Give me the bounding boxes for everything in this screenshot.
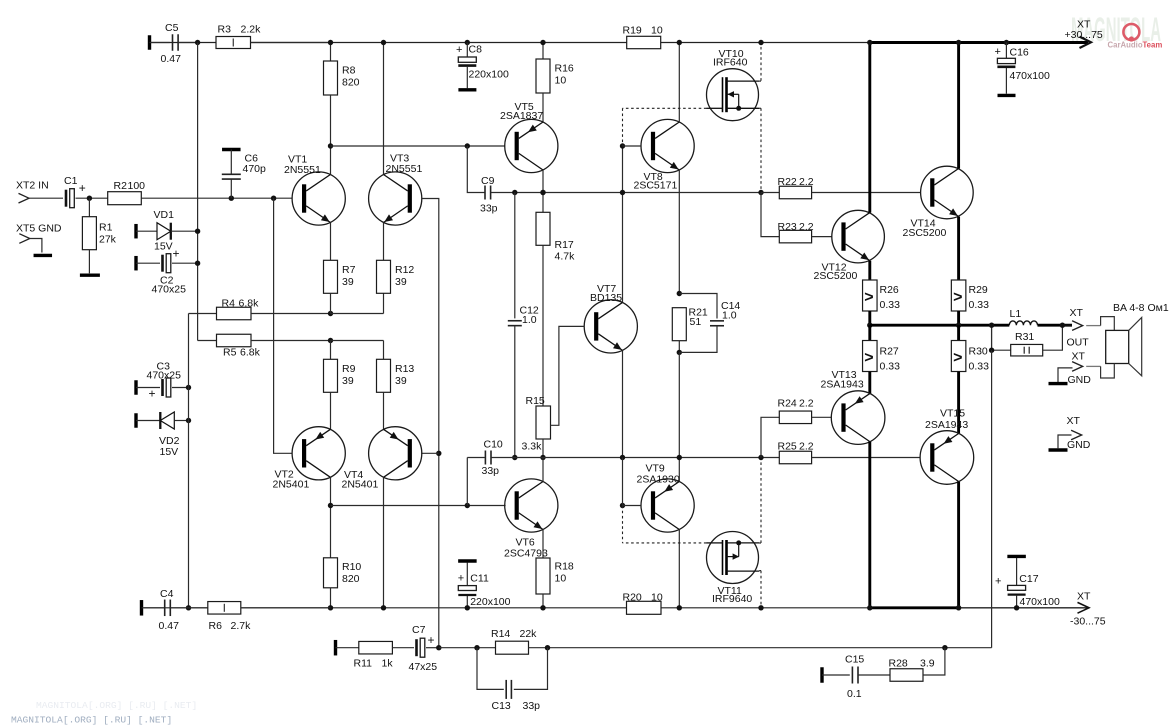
svg-text:2.2: 2.2 — [799, 221, 814, 233]
capacitor C15 0.1 — [820, 667, 823, 683]
svg-text:C8: C8 — [469, 44, 483, 56]
svg-text:0.47: 0.47 — [161, 53, 182, 65]
svg-text:>: > — [953, 289, 962, 306]
svg-text:L1: L1 — [1010, 308, 1022, 320]
wire VT14 emitter to R29 — [957, 217, 960, 280]
svg-text:MAGNITOLA[.ORG] [.RU] [.NET]: MAGNITOLA[.ORG] [.RU] [.NET] — [11, 715, 172, 726]
svg-text:R12: R12 — [395, 264, 414, 276]
svg-text:R16: R16 — [555, 63, 574, 75]
resistor R9 39 — [324, 359, 338, 392]
svg-text:2SC5200: 2SC5200 — [814, 270, 858, 282]
wire C12 riser — [514, 193, 516, 319]
svg-text:C10: C10 — [484, 439, 503, 451]
capacitor C9 33p — [467, 146, 484, 193]
resistor R4 6.8k — [189, 313, 217, 315]
wire R6 to rail — [241, 607, 331, 609]
svg-text:22k: 22k — [520, 628, 538, 640]
svg-text:220x100: 220x100 — [469, 69, 509, 81]
svg-text:0.33: 0.33 — [969, 361, 990, 373]
svg-text:C4: C4 — [160, 588, 174, 600]
svg-text:R3: R3 — [218, 24, 232, 36]
XT +30...75 supply arrow — [1080, 37, 1092, 48]
wire VT7 emitter to bias rail — [622, 350, 624, 457]
resistor R7 39 — [324, 260, 338, 293]
wire R9 to VT2 emitter — [330, 392, 332, 429]
node feedback tap — [436, 645, 441, 650]
svg-text:820: 820 — [342, 573, 360, 585]
connector XT OUT — [1062, 324, 1072, 326]
wire VT10 source dashed down — [760, 108, 762, 192]
wire VT8 collector to rail — [678, 43, 680, 123]
svg-text:2N5401: 2N5401 — [342, 478, 379, 490]
wire R5 node to R9 R13 tops — [331, 340, 384, 342]
wire R16 to VT5 emitter — [542, 93, 544, 122]
svg-text:R17: R17 — [555, 239, 574, 251]
wire VT14 collector thick to rail — [957, 43, 960, 169]
wire VT12 emitter to R26 — [868, 261, 871, 280]
resistor R31 — [991, 325, 993, 350]
svg-text:51: 51 — [690, 316, 702, 328]
resistor R21 51 — [672, 308, 686, 341]
svg-text:47x25: 47x25 — [409, 661, 438, 673]
svg-text:R29: R29 — [969, 284, 988, 296]
resistor R5 6.8k — [198, 340, 217, 342]
resistor R12 39 — [377, 260, 391, 293]
capacitor C5 0.47 — [148, 35, 151, 50]
svg-text:470x25: 470x25 — [152, 284, 187, 296]
wire VT3 base riser x438 — [421, 199, 439, 648]
svg-text:15V: 15V — [154, 241, 173, 253]
wire R12 bottom — [383, 293, 385, 313]
svg-text:470x100: 470x100 — [1010, 70, 1050, 82]
svg-text:R8: R8 — [342, 65, 356, 77]
svg-text:27k: 27k — [99, 234, 117, 246]
svg-text:2SC5171: 2SC5171 — [634, 180, 678, 192]
wire output to feedback riser — [991, 350, 993, 648]
svg-text:>: > — [864, 350, 873, 367]
svg-text:R20: R20 — [623, 592, 642, 604]
wire R23 to VT12 base — [812, 236, 833, 238]
svg-text:R25: R25 — [778, 440, 797, 452]
svg-text:R28: R28 — [889, 658, 908, 670]
svg-text:6.8k: 6.8k — [240, 347, 261, 359]
svg-text:2.7k: 2.7k — [231, 620, 252, 632]
resistor R26 0.33 — [863, 280, 878, 311]
capacitor C16 470x100 — [1004, 40, 1009, 45]
wire feedback to R14 — [439, 647, 496, 649]
wire R10 to bottom rail — [330, 588, 332, 608]
svg-text:R1: R1 — [99, 222, 113, 234]
svg-text:R24: R24 — [778, 397, 797, 409]
svg-text:C7: C7 — [412, 624, 426, 636]
capacitor C4 0.47 — [140, 600, 143, 616]
svg-text:2.2: 2.2 — [799, 440, 814, 452]
svg-text:2N5551: 2N5551 — [284, 164, 321, 176]
wire VT13 collector thick to bottom rail — [868, 442, 871, 608]
svg-text:3.3k: 3.3k — [522, 441, 543, 453]
svg-text:+: + — [173, 247, 180, 261]
wire R2 to VT1 base — [141, 197, 292, 199]
wire R22 to VT14 base — [812, 192, 921, 194]
resistor R2 100 — [108, 192, 142, 205]
node driver output upper — [758, 190, 763, 195]
svg-text:0.1: 0.1 — [847, 688, 862, 700]
capacitor C8 220x100 — [465, 40, 470, 45]
wire R27 to VT13 emitter — [868, 372, 871, 394]
transistor VT13 2SA1943 — [831, 391, 885, 445]
svg-text:39: 39 — [342, 276, 354, 288]
svg-text:R10: R10 — [342, 561, 361, 573]
svg-text:R15: R15 — [526, 395, 545, 407]
svg-text:4.7k: 4.7k — [555, 251, 576, 263]
svg-text:C11: C11 — [470, 573, 489, 585]
svg-text:C9: C9 — [481, 175, 495, 187]
svg-text:10: 10 — [555, 573, 567, 585]
svg-text:R2: R2 — [114, 180, 128, 192]
transistor VT8 2SC5171 — [641, 119, 694, 172]
svg-text:C1: C1 — [64, 175, 78, 187]
inductor L1 — [1009, 321, 1037, 325]
capacitor C2 470x25 — [134, 256, 137, 271]
capacitor C13 33p — [477, 648, 504, 690]
wire R26 to output rail — [868, 311, 871, 325]
wire VT10 gate dashed to VT8 base — [623, 107, 707, 109]
XT -30...75 supply arrow — [1078, 602, 1090, 613]
wire R7 bottom to R4 node — [330, 293, 332, 313]
svg-text:XT5 GND: XT5 GND — [16, 223, 62, 235]
resistor R15 3.3k — [536, 406, 551, 439]
svg-text:R19: R19 — [623, 25, 642, 37]
diode VD1 15V — [134, 224, 137, 239]
svg-text:IRF9640: IRF9640 — [712, 593, 752, 605]
speaker BA 4-8 Om — [1106, 330, 1129, 363]
svg-text:2N5401: 2N5401 — [273, 478, 310, 490]
svg-text:C13: C13 — [492, 700, 511, 712]
transistor VT2 2N5401 — [292, 427, 345, 480]
wire speaker minus — [1086, 365, 1100, 367]
svg-text:10: 10 — [651, 592, 663, 604]
svg-text:2SA1930: 2SA1930 — [637, 474, 680, 486]
ground bar under R1 — [80, 274, 100, 277]
svg-text:1.0: 1.0 — [722, 310, 737, 322]
svg-text:2.2: 2.2 — [799, 176, 814, 188]
wire bias rail — [467, 457, 485, 459]
wire VT8 emitter to R21 — [678, 170, 680, 294]
svg-text:VT15: VT15 — [940, 408, 965, 420]
svg-text:R31: R31 — [1015, 331, 1034, 343]
wire R18 to bottom rail — [542, 594, 544, 608]
node C12 top — [512, 190, 517, 195]
capacitor C1 — [65, 190, 68, 207]
wire VT6 emitter to R18 — [542, 530, 544, 559]
svg-text:-30...75: -30...75 — [1070, 616, 1106, 628]
wire VT4 base lead — [421, 452, 439, 454]
svg-text:OUT: OUT — [1067, 337, 1090, 349]
svg-text:+: + — [995, 46, 1001, 58]
transistor VT14 2SC5200 — [921, 166, 974, 219]
ground bar speaker — [1049, 382, 1068, 385]
resistor R28 3.9 — [890, 669, 923, 682]
svg-text:39: 39 — [395, 276, 407, 288]
wire VT7 collector to VT8 base node — [622, 146, 624, 302]
resistor R29 0.33 — [951, 280, 966, 311]
wire VT10 drain dashed to rail — [760, 43, 762, 81]
svg-text:0.33: 0.33 — [880, 361, 901, 373]
transistor VT3 2N5551 — [369, 172, 422, 225]
svg-text:XT: XT — [1070, 307, 1084, 319]
resistor R19 10 — [627, 36, 661, 48]
wire R17 to R15 — [542, 245, 544, 406]
capacitor C14 1.0 — [679, 294, 717, 319]
wire VT1 emitter to R7 — [330, 223, 332, 261]
wire VT5 base line — [331, 145, 506, 147]
wire VT9 collector to bottom rail — [678, 530, 680, 608]
wire vertical x188 R4-C3-VD2 to bottom rail — [188, 314, 190, 608]
resistor R16 10 — [536, 59, 550, 93]
diode VD2 15V — [134, 413, 137, 428]
svg-text:R13: R13 — [395, 363, 414, 375]
capacitor C10 33p — [484, 451, 486, 465]
wire VT11 source dashed up — [760, 458, 762, 544]
svg-text:XT2 IN: XT2 IN — [16, 180, 49, 192]
wire output rail thick — [870, 324, 1010, 327]
svg-text:2.2k: 2.2k — [241, 24, 262, 36]
svg-text:2.2: 2.2 — [799, 397, 814, 409]
svg-text:BA 4-8 Ом1: BA 4-8 Ом1 — [1113, 302, 1169, 314]
wire input to C1 — [29, 197, 63, 199]
svg-text:R27: R27 — [880, 346, 899, 358]
wire VT7 emitter to VT9 base riser — [622, 458, 624, 506]
svg-text:470x100: 470x100 — [1020, 596, 1060, 608]
svg-text:CarAudio: CarAudio — [1108, 40, 1143, 49]
wire R14 to output riser — [529, 647, 992, 649]
resistor R24 2.2 — [761, 417, 779, 457]
resistor R27 0.33 — [868, 325, 871, 340]
svg-text:33p: 33p — [480, 203, 498, 215]
capacitor C17 470x100 — [1007, 555, 1026, 558]
svg-text:220x100: 220x100 — [470, 596, 510, 608]
svg-text:0.47: 0.47 — [159, 620, 180, 632]
svg-text:10: 10 — [555, 75, 567, 87]
resistor R20 10 — [627, 601, 662, 614]
svg-text:6.8k: 6.8k — [239, 298, 260, 310]
svg-text:C5: C5 — [165, 22, 179, 34]
svg-text:R23: R23 — [778, 221, 797, 233]
capacitor C11 220x100 — [458, 559, 477, 562]
svg-text:39: 39 — [395, 375, 407, 387]
wire rail to R8 — [330, 43, 332, 62]
svg-text:GND: GND — [1067, 439, 1091, 451]
wire R8 to VT1 collector — [330, 95, 332, 174]
transistor VT12 2SC5200 — [832, 210, 885, 263]
wire VT3 emitter to R12 — [383, 223, 385, 261]
wire C1 to R2 — [76, 197, 108, 199]
transistor VT11 IRF9640 — [707, 532, 759, 584]
resistor R13 39 — [377, 359, 391, 392]
svg-text:R6: R6 — [209, 620, 223, 632]
svg-text:XT: XT — [1077, 591, 1091, 603]
capacitor C3 470x25 — [134, 380, 137, 395]
wire VT11 gate dashed to VT9 base — [623, 542, 707, 544]
svg-text:XT: XT — [1067, 415, 1081, 427]
svg-text:0.33: 0.33 — [880, 299, 901, 311]
svg-text:33p: 33p — [523, 700, 541, 712]
resistor R23 2.2 — [761, 193, 779, 237]
wire XT5 to ground — [30, 239, 42, 253]
svg-text:Team: Team — [1143, 40, 1163, 49]
node driver output lower — [758, 455, 763, 460]
svg-text:XT: XT — [1072, 351, 1086, 363]
wire R15 to bias rail — [542, 439, 544, 458]
resistor R8 820 — [324, 61, 338, 95]
svg-text:R7: R7 — [342, 264, 356, 276]
transistor VT9 2SA1930 — [641, 479, 694, 532]
wire VT15 collector thick to bottom rail — [957, 482, 960, 608]
svg-text:R26: R26 — [880, 284, 899, 296]
svg-text:470p: 470p — [243, 163, 267, 175]
wire R13 to VT4 emitter — [383, 392, 385, 429]
svg-text:100: 100 — [128, 180, 146, 192]
capacitor C6 470p — [222, 148, 241, 151]
svg-text:+30...75: +30...75 — [1065, 29, 1103, 41]
wire VT6 base line — [331, 505, 506, 507]
resistor R1 27k — [88, 198, 90, 217]
svg-text:MAGNITOLA[.ORG] [.RU] [.NET]: MAGNITOLA[.ORG] [.RU] [.NET] — [36, 700, 197, 711]
svg-text:R5: R5 — [223, 347, 237, 359]
wire VT2 base riser — [274, 198, 293, 453]
node top rail / C5-R3 junction — [195, 40, 200, 45]
wire VT3 collector to rail — [383, 43, 385, 175]
svg-text:820: 820 — [342, 77, 360, 89]
svg-text:R14: R14 — [491, 628, 510, 640]
resistor R18 10 — [536, 558, 550, 594]
node VT9 base — [620, 503, 625, 508]
svg-text:33p: 33p — [482, 465, 500, 477]
svg-text:2SA1943: 2SA1943 — [925, 419, 968, 431]
wire R3 to rail — [251, 42, 331, 44]
svg-text:+: + — [456, 44, 462, 56]
svg-text:+: + — [79, 181, 86, 195]
svg-text:BD135: BD135 — [590, 292, 622, 304]
svg-text:R30: R30 — [969, 346, 988, 358]
svg-text:IRF640: IRF640 — [713, 57, 748, 69]
transistor VT1 2N5551 — [292, 172, 345, 225]
svg-text:1.0: 1.0 — [522, 314, 537, 326]
capacitor C12 1.0 — [508, 320, 522, 322]
svg-text:2SC5200: 2SC5200 — [903, 227, 947, 239]
wire C10 riser to VT6 base line — [466, 458, 468, 506]
ground bar XT5 — [34, 254, 53, 257]
svg-text:R11: R11 — [354, 657, 373, 669]
resistor R14 22k — [496, 641, 529, 654]
svg-text:R22: R22 — [778, 176, 797, 188]
wire VT6 collector to bias rail — [542, 458, 544, 482]
svg-text:2N5551: 2N5551 — [386, 163, 423, 175]
wire R21 to VT9 emitter — [678, 352, 680, 481]
svg-text:GND: GND — [1068, 374, 1092, 386]
svg-text:39: 39 — [342, 375, 354, 387]
resistor R17 4.7k — [536, 212, 550, 245]
resistor R22 2.2 — [761, 192, 779, 194]
svg-text:C15: C15 — [845, 654, 864, 666]
svg-text:R9: R9 — [342, 363, 356, 375]
svg-text:1k: 1k — [382, 657, 394, 669]
wire VT4 collector to bottom rail — [383, 477, 385, 608]
transistor VT5 2SA1837 — [505, 119, 558, 172]
wire vertical x198 to VD1 C2 R5 — [197, 43, 199, 341]
svg-text:+: + — [149, 387, 156, 401]
svg-text:R18: R18 — [555, 561, 574, 573]
wire VT12 collector thick to rail — [868, 43, 871, 213]
wire rail to R16 — [542, 43, 544, 60]
resistor R10 820 — [324, 558, 338, 588]
svg-text:+: + — [428, 633, 435, 647]
wire VT11 drain dashed to bottom rail — [760, 571, 762, 608]
svg-text:+: + — [458, 573, 464, 585]
wire VT7 base to R15 — [551, 326, 585, 425]
svg-text:>: > — [953, 350, 962, 367]
resistor R30 0.33 — [957, 325, 960, 340]
resistor R11 1k — [334, 640, 337, 656]
node VT8 base — [620, 143, 625, 148]
wire -30V bottom supply rail — [144, 607, 869, 609]
wire bottom rail middle segment — [189, 607, 208, 609]
svg-text:3.9: 3.9 — [920, 658, 935, 670]
transistor VT10 IRF640 — [707, 69, 759, 121]
wire +30V top supply rail — [151, 42, 868, 44]
svg-text:15V: 15V — [160, 446, 179, 458]
transistor VT6 2SC4793 — [505, 479, 558, 532]
transistor VT4 2N5401 — [369, 427, 422, 480]
resistor R25 2.2 — [779, 451, 811, 464]
resistor R6 2.7k — [208, 602, 241, 615]
resistor R3 2.2k — [216, 37, 251, 49]
svg-text:C17: C17 — [1019, 573, 1038, 585]
transistor VT15 2SA1943 — [920, 431, 974, 485]
svg-text:0.33: 0.33 — [969, 299, 990, 311]
capacitor C7 47x25 — [392, 647, 414, 649]
wire VT2 collector to R10 — [330, 477, 332, 558]
svg-text:C16: C16 — [1010, 47, 1029, 59]
svg-text:2SA1837: 2SA1837 — [500, 110, 543, 122]
svg-text:>: > — [864, 289, 873, 306]
wire VT5 collector down — [542, 170, 544, 212]
svg-text:2SA1943: 2SA1943 — [821, 379, 864, 391]
wire R29 to output rail — [957, 311, 960, 325]
wire R30 to VT15 emitter — [957, 372, 960, 434]
wire R24 to VT13 base — [812, 416, 832, 418]
svg-text:+: + — [995, 575, 1001, 587]
svg-text:10: 10 — [651, 25, 663, 37]
svg-text:470x25: 470x25 — [147, 370, 182, 382]
wire R25 to VT15 base — [812, 457, 921, 459]
ground bar lower — [1049, 448, 1068, 451]
svg-text:VD1: VD1 — [154, 209, 175, 221]
wire to speaker plus — [1086, 325, 1100, 327]
svg-text:R4: R4 — [222, 298, 236, 310]
transistor VT7 BD135 — [584, 300, 637, 353]
